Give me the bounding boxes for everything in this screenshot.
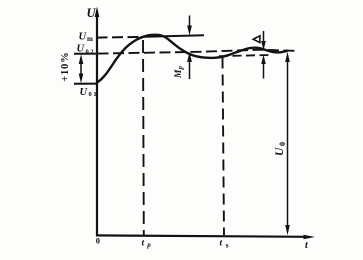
- svg-text:+10%: +10%: [60, 52, 71, 82]
- svg-text:0 1: 0 1: [89, 91, 97, 98]
- svg-text:t: t: [142, 239, 145, 249]
- svg-text:0: 0: [96, 236, 100, 246]
- svg-text:M: M: [174, 69, 184, 79]
- svg-text:0 2: 0 2: [86, 49, 94, 56]
- svg-text:p: p: [146, 241, 151, 249]
- svg-text:s: s: [226, 240, 229, 249]
- svg-text:U: U: [274, 147, 286, 156]
- svg-text:t: t: [220, 239, 223, 249]
- svg-text:0: 0: [278, 142, 287, 146]
- svg-text:m: m: [87, 35, 93, 43]
- svg-text:U: U: [87, 6, 97, 20]
- svg-text:p: p: [177, 66, 185, 71]
